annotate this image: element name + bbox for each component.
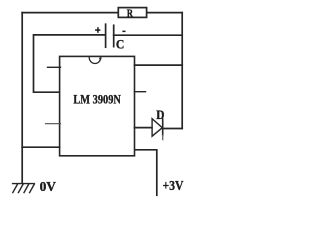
wire capacitor plus lead [34, 35, 106, 92]
wire IC pin to right rail [135, 64, 183, 66]
pin stub right middle [135, 91, 146, 93]
svg-text:C: C [116, 36, 125, 51]
wire top rail left of R [22, 12, 118, 14]
capacitor C right plate [113, 25, 115, 46]
svg-text:R: R [127, 6, 134, 20]
capacitor C plus polarity mark [95, 27, 100, 33]
wire diode anode lead [135, 127, 152, 129]
ground symbol hatch 3 [24, 184, 29, 193]
wire top rail right of R [147, 12, 183, 14]
op-amp U1 notch [89, 57, 101, 63]
diode D cathode bar [162, 119, 164, 136]
wire right border vertical [181, 13, 183, 129]
svg-text:+3V: +3V [163, 178, 184, 193]
diode D cathode bar faded tail [162, 136, 164, 140]
diode D triangle [152, 119, 162, 137]
ground symbol hatch 4 [30, 184, 35, 193]
ground symbol bar [13, 183, 35, 185]
op-amp U1 notch ink blob [99, 57, 101, 59]
wire left border vertical [21, 13, 23, 184]
capacitor C minus polarity mark [122, 31, 125, 32]
pin stub left lower [46, 123, 61, 125]
svg-text:0V: 0V [40, 180, 56, 195]
wire +3V supply lead [135, 150, 157, 196]
ground symbol hatch 1 [13, 184, 18, 193]
capacitor C left plate [105, 24, 107, 47]
wire ground rail to IC pin [22, 146, 59, 148]
svg-text:D: D [156, 108, 164, 122]
svg-text:LM 3909N: LM 3909N [73, 92, 121, 106]
ground symbol hatch 2 [18, 184, 23, 193]
pin stub left upper [48, 66, 61, 68]
resistor R1 box [118, 8, 146, 18]
wire diode cathode to right rail [163, 128, 182, 130]
wire capacitor minus lead to right rail [114, 34, 183, 36]
op-amp U1 IC body LM3909N [60, 56, 135, 155]
